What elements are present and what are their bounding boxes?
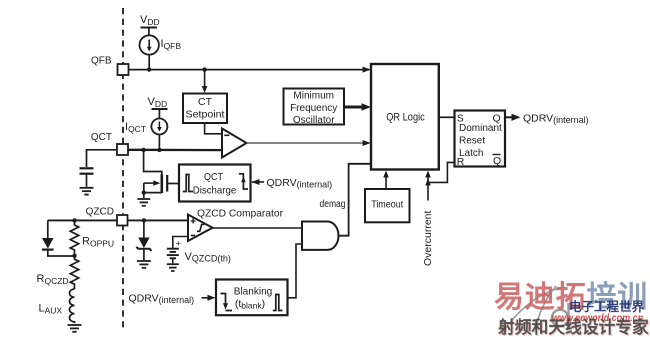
current source IQFB bbox=[140, 35, 182, 69]
pin QCT bbox=[91, 132, 128, 155]
wire QFB to QR Logic bbox=[129, 67, 371, 73]
svg-text:IQCT: IQCT bbox=[125, 121, 146, 134]
resistor ROPPU bbox=[70, 220, 114, 258]
wire QDRV into QCT Discharge bbox=[252, 177, 333, 190]
svg-text:CT: CT bbox=[198, 96, 213, 108]
watermark navy logo text bbox=[569, 301, 644, 314]
current source IQCT bbox=[125, 119, 167, 150]
block Minimum Frequency Oscillator bbox=[284, 89, 345, 126]
wire/net Overcurrent bbox=[422, 171, 434, 267]
wire QR Logic to latch S bbox=[439, 116, 455, 118]
wire CT Setpoint to comparator bbox=[205, 123, 222, 134]
svg-text:Minimum: Minimum bbox=[293, 91, 334, 102]
power VDD (QCT) bbox=[148, 96, 168, 119]
svg-text:QZCD Comparator: QZCD Comparator bbox=[197, 208, 283, 220]
svg-text:Overcurrent: Overcurrent bbox=[422, 210, 434, 266]
wire QZCD node bbox=[48, 218, 189, 222]
ground (LAUX) bbox=[68, 325, 82, 332]
block QR Logic bbox=[371, 64, 439, 170]
power VDD (QFB) bbox=[140, 14, 160, 35]
comparator CT (current-mode) bbox=[222, 129, 247, 158]
diode (parallel with ROPPU) bbox=[42, 220, 73, 256]
pin QFB bbox=[91, 56, 129, 76]
svg-text:Frequency: Frequency bbox=[290, 103, 337, 114]
svg-text:Timeout: Timeout bbox=[371, 199, 403, 211]
comparator QZCD bbox=[188, 208, 283, 242]
svg-text:demag: demag bbox=[320, 199, 346, 210]
svg-text:(tblank): (tblank) bbox=[235, 298, 265, 311]
svg-text:Oscillator: Oscillator bbox=[293, 115, 335, 126]
svg-text:QCT: QCT bbox=[204, 171, 223, 183]
svg-text:Blanking: Blanking bbox=[234, 285, 273, 297]
svg-text:Dominant: Dominant bbox=[459, 123, 502, 134]
svg-text:Discharge: Discharge bbox=[193, 185, 237, 197]
reference VQZCD(th) bbox=[167, 237, 231, 264]
watermark art (logo swoosh + ring) bbox=[490, 277, 650, 337]
svg-text:VQZCD(th): VQZCD(th) bbox=[185, 251, 231, 264]
watermark slogan bbox=[498, 319, 649, 336]
latch Dominant Reset Latch bbox=[455, 111, 506, 169]
svg-text:QR Logic: QR Logic bbox=[386, 111, 425, 123]
wire MFO to QR Logic (thick) bbox=[344, 103, 371, 111]
wire QDRV into Blanking bbox=[129, 293, 216, 306]
ground (zener) bbox=[137, 261, 151, 268]
zener diode at QZCD bbox=[136, 220, 151, 260]
svg-text:QFB: QFB bbox=[91, 56, 112, 67]
wire demag (AND to QR Logic) bbox=[320, 164, 371, 236]
ground (QCT cap) bbox=[80, 188, 94, 195]
svg-text:Setpoint: Setpoint bbox=[186, 108, 225, 120]
svg-text:Reset: Reset bbox=[459, 136, 485, 147]
capacitor at QCT pin bbox=[80, 150, 118, 187]
svg-text:QDRV(internal): QDRV(internal) bbox=[267, 177, 333, 190]
wire blanking to AND bbox=[288, 244, 302, 298]
watermark red url bbox=[552, 314, 643, 324]
svg-text:ROPPU: ROPPU bbox=[82, 236, 114, 249]
transistor (QCT discharge switch) bbox=[142, 150, 179, 198]
wire comparator QZCD to AND bbox=[213, 227, 303, 229]
svg-text:LAUX: LAUX bbox=[39, 303, 63, 316]
wire comparator CT to QR Logic bbox=[247, 140, 371, 146]
svg-text:RQCZD: RQCZD bbox=[37, 273, 69, 286]
pin QZCD bbox=[86, 207, 128, 226]
svg-text:R: R bbox=[457, 156, 465, 168]
block Blanking bbox=[216, 280, 288, 316]
wire Timeout to QR Logic bbox=[383, 171, 389, 190]
svg-text:QDRV(internal): QDRV(internal) bbox=[523, 113, 589, 126]
AND gate bbox=[302, 222, 338, 250]
svg-text:QZCD: QZCD bbox=[86, 207, 114, 218]
svg-text:QDRV(internal): QDRV(internal) bbox=[129, 293, 195, 306]
svg-text:VDD: VDD bbox=[140, 14, 160, 27]
svg-text:VDD: VDD bbox=[148, 96, 168, 109]
block Timeout bbox=[365, 189, 410, 222]
inductor LAUX bbox=[39, 289, 75, 323]
watermark big red text bbox=[494, 283, 648, 313]
wire QDRV(internal) output bbox=[505, 113, 589, 126]
svg-text:Q: Q bbox=[493, 155, 501, 167]
wire QFB drop to CT Setpoint bbox=[202, 70, 208, 93]
wire QCT to comparator bbox=[128, 148, 228, 153]
block QCT Discharge bbox=[179, 165, 251, 202]
resistor RQCZD bbox=[37, 256, 79, 289]
wire Overcurrent to latch R bbox=[428, 162, 455, 182]
ground (vref) bbox=[167, 264, 179, 271]
svg-text:QCT: QCT bbox=[91, 132, 112, 143]
block CT Setpoint bbox=[183, 94, 227, 124]
dashed IC boundary line bbox=[122, 8, 124, 331]
ground (mosfet source) bbox=[137, 199, 150, 206]
svg-text:IQFB: IQFB bbox=[161, 38, 182, 51]
